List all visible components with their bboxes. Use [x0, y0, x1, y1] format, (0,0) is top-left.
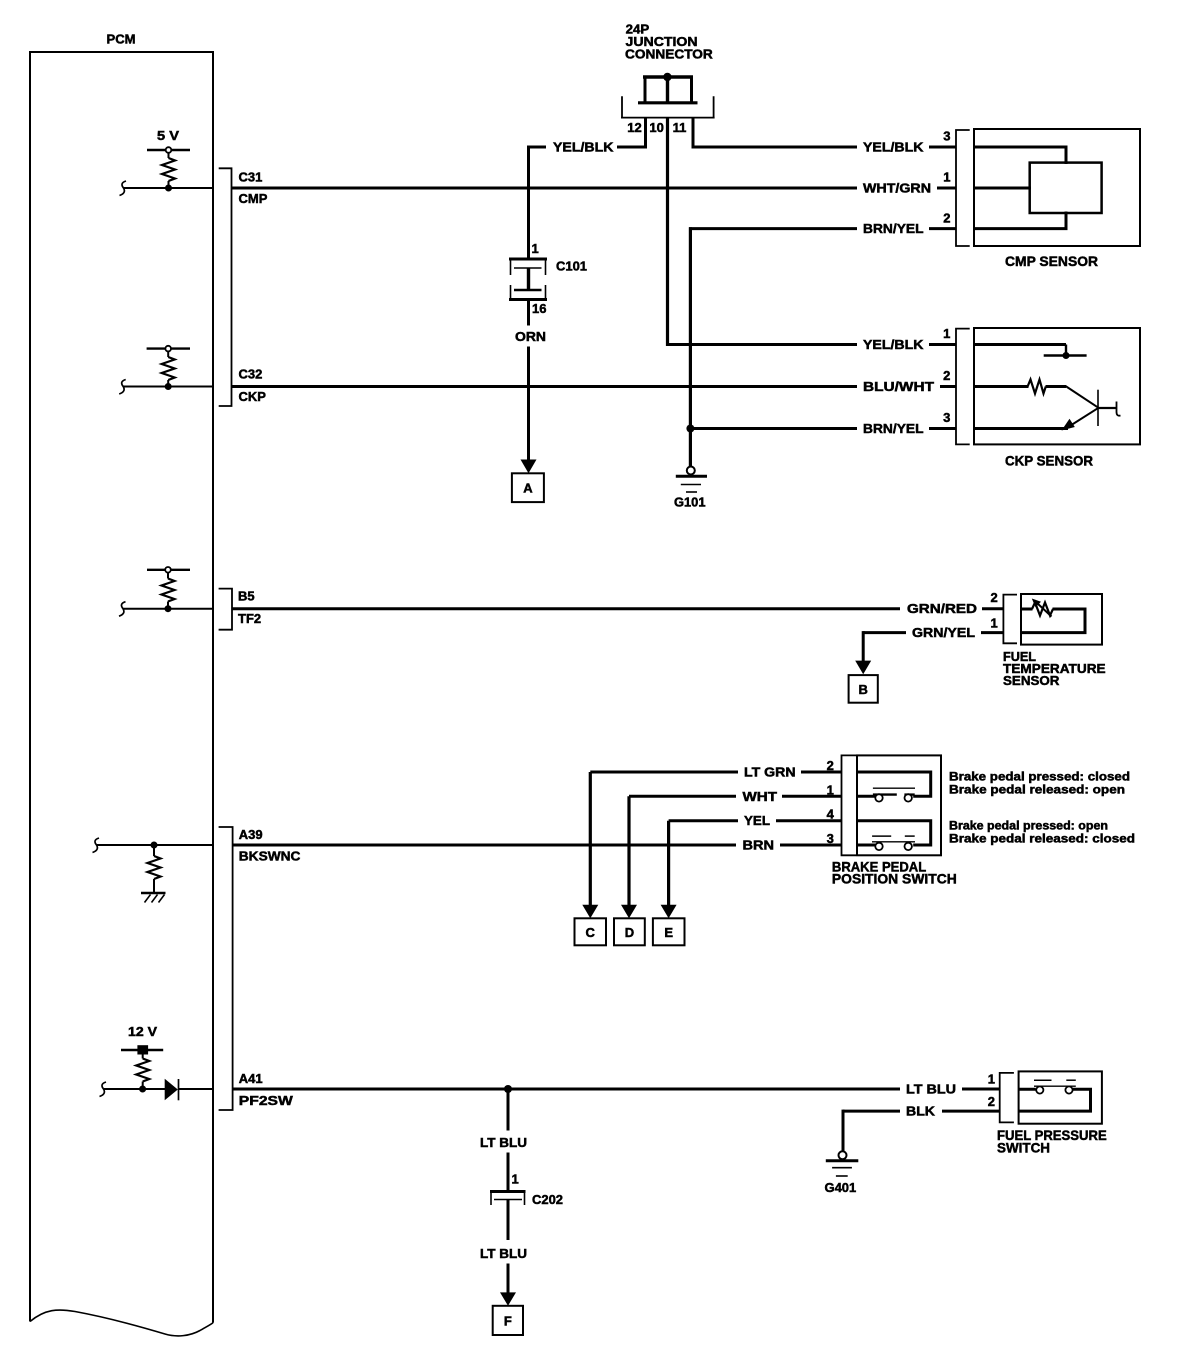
wire YEL/BLK label to down corner	[529, 146, 546, 149]
svg-text:3: 3	[827, 831, 834, 846]
svg-text:2: 2	[988, 1094, 995, 1109]
fuel pressure inner trace pin 1	[1019, 1088, 1036, 1091]
wire vertical to C arrow	[589, 772, 592, 905]
CMP sensor box	[974, 129, 1140, 246]
resistor (C31 pull-up)	[162, 158, 175, 181]
wire A39 to brake pin 3 (BRN row)	[233, 844, 736, 847]
svg-text:1: 1	[990, 616, 997, 631]
wire YEL row (brake pin 4)	[669, 819, 738, 822]
brake switch 2 wiring	[857, 821, 931, 845]
arrowhead to D	[621, 905, 637, 919]
destination box F	[493, 1306, 523, 1335]
chassis ground A39	[141, 893, 166, 903]
label FUEL TEMPERATURE SENSOR	[1003, 649, 1106, 688]
label BRAKE PEDAL POSITION SWITCH	[832, 858, 957, 886]
svg-text:G401: G401	[825, 1180, 857, 1195]
CMP inner trace pin 3	[974, 147, 1066, 164]
fuel temp inner loop	[1021, 609, 1085, 633]
svg-text:WHT: WHT	[743, 789, 778, 804]
wire C32 to CKP pin 2 (BLU/WHT row)	[232, 385, 858, 388]
wire stub to brake pin 2	[801, 771, 842, 774]
svg-text:YEL: YEL	[744, 813, 770, 828]
wire stub to fuel pressure pin 1	[962, 1088, 1000, 1091]
svg-text:LT GRN: LT GRN	[744, 765, 796, 780]
wire C31 to CMP pin 1 (WHT/GRN row)	[232, 187, 858, 190]
annotation switch 2	[949, 819, 1135, 846]
svg-text:CMP: CMP	[239, 191, 268, 206]
label FUEL PRESSURE SWITCH	[997, 1127, 1107, 1156]
svg-text:CKP SENSOR: CKP SENSOR	[1005, 453, 1093, 469]
destination box C	[575, 918, 607, 945]
svg-text:1: 1	[512, 1172, 519, 1187]
svg-text:D: D	[625, 925, 634, 940]
wire dot to resistor	[153, 845, 155, 856]
svg-text:YEL/BLK: YEL/BLK	[863, 140, 924, 155]
svg-text:2: 2	[943, 368, 950, 383]
brake connector bracket	[842, 755, 857, 855]
svg-text:C31: C31	[239, 170, 263, 185]
diode D (A41)	[165, 1079, 179, 1101]
wire stub to CMP pin 1	[937, 187, 956, 190]
svg-text:PCM: PCM	[107, 32, 136, 47]
wire BRN/YEL row to CKP pin 3	[690, 427, 857, 430]
resistor (A39 pull-down)	[148, 856, 161, 879]
wire pin 12 to YEL/BLK label	[617, 146, 647, 149]
svg-text:POSITION SWITCH: POSITION SWITCH	[832, 871, 957, 887]
24P junction connector symbol	[638, 73, 698, 103]
wire stub to CKP pin 1	[929, 343, 956, 346]
junction dot on C31 wire	[165, 185, 172, 192]
svg-text:5 V: 5 V	[157, 128, 179, 143]
wire resistor to C32 wire	[167, 380, 169, 387]
CMP inner trace pin 1	[974, 187, 1031, 190]
wire C31 inside PCM	[123, 187, 213, 189]
svg-text:CMP SENSOR: CMP SENSOR	[1005, 253, 1098, 269]
wire stub to brake pin 3	[780, 844, 842, 847]
in-line connector C101	[509, 259, 547, 300]
wire vertical to D arrow	[627, 796, 630, 905]
svg-text:PF2SW: PF2SW	[239, 1093, 294, 1108]
wire break squiggle A41	[100, 1082, 107, 1097]
wire stub to fuel temp pin 2	[982, 607, 1003, 610]
junction dot on C32 wire	[165, 383, 172, 390]
svg-text:E: E	[664, 925, 673, 940]
wire junction to ground G101	[689, 429, 692, 467]
svg-text:TF2: TF2	[238, 611, 261, 626]
connector bracket C31/C32	[219, 168, 232, 406]
svg-text:2: 2	[990, 590, 997, 605]
wire break squiggle A39	[93, 838, 100, 853]
svg-text:1: 1	[988, 1072, 995, 1087]
svg-text:B5: B5	[238, 589, 255, 604]
PCM box	[30, 52, 213, 1336]
wire WHT row (brake pin 1)	[629, 795, 736, 798]
5V supply symbol at C32	[147, 346, 190, 357]
CMP connector bracket	[956, 130, 970, 246]
arrowhead to F	[500, 1292, 516, 1305]
ground G101	[676, 467, 707, 493]
arrowhead to E	[661, 905, 677, 919]
wire diode to PCM edge	[179, 1088, 214, 1090]
fuel temperature sensor box	[1021, 594, 1102, 645]
wire vertical to E arrow	[667, 821, 670, 906]
svg-text:1: 1	[532, 241, 539, 256]
wire A41 to fuel pressure pin 1 (LT BLU row)	[233, 1088, 900, 1091]
svg-text:2: 2	[943, 211, 950, 226]
resistor (A41 pull-up)	[136, 1059, 149, 1082]
wire junction to LT BLU label	[507, 1089, 510, 1131]
wire corner BLK to G401	[842, 1110, 845, 1151]
wire resistor to ground	[153, 879, 155, 892]
CKP connector bracket	[956, 329, 970, 445]
svg-text:GRN/RED: GRN/RED	[907, 601, 977, 616]
wire pin10 corner to CKP pin 1 (YEL/BLK row)	[666, 343, 857, 346]
wire label to C202	[507, 1153, 510, 1192]
junction dot on B5 wire	[165, 605, 172, 612]
svg-text:BLK: BLK	[906, 1104, 936, 1119]
wire break squiggle B5	[119, 602, 126, 617]
svg-text:Brake pedal released: open: Brake pedal released: open	[949, 782, 1125, 796]
junction dot on A41 wire	[139, 1086, 146, 1093]
junction dot C202 node	[504, 1085, 512, 1093]
CKP sensor box	[974, 328, 1140, 444]
CKP wire resistor to core	[1046, 385, 1067, 388]
svg-text:LT BLU: LT BLU	[906, 1082, 956, 1097]
svg-text:C202: C202	[532, 1192, 563, 1207]
CKP inner trace pin 2	[974, 385, 1029, 388]
wire stub to brake pin 4	[776, 819, 842, 822]
wire BRN/YEL row to CMP pin 2	[689, 227, 857, 230]
wire corner GRN/YEL to B arrow	[862, 631, 865, 661]
wire resistor to B5 wire	[167, 602, 169, 609]
fuel pressure connector bracket	[1000, 1073, 1014, 1123]
svg-text:YEL/BLK: YEL/BLK	[553, 140, 614, 155]
CMP inner trace pin 2	[974, 212, 1066, 229]
svg-text:16: 16	[532, 301, 546, 316]
svg-text:SWITCH: SWITCH	[997, 1140, 1050, 1156]
brake pedal position switch box	[857, 755, 941, 855]
wire B5 to fuel temp pin 2 (GRN/RED row)	[232, 607, 900, 610]
svg-text:1: 1	[943, 170, 950, 185]
5V supply symbol at B5	[147, 567, 190, 579]
wire resistor to C31 wire	[168, 181, 170, 188]
svg-text:F: F	[504, 1314, 512, 1329]
svg-text:G101: G101	[674, 495, 706, 510]
svg-text:B: B	[859, 682, 868, 697]
fuel temp inner trace pin 2	[1021, 608, 1033, 611]
wire stub to CKP pin 2	[940, 385, 956, 388]
wire GRN/YEL row	[863, 631, 906, 634]
CKP core bar	[1097, 390, 1099, 426]
fuel pressure switch box	[1019, 1071, 1102, 1123]
wire A39 inside PCM	[97, 844, 213, 846]
svg-text:BKSWNC: BKSWNC	[239, 849, 301, 864]
wire stub to CMP pin 3	[929, 146, 956, 149]
arrowhead to A	[521, 460, 537, 474]
wire C202 to LT BLU label	[507, 1200, 510, 1241]
24P connector bracket	[621, 96, 715, 117]
destination box D	[614, 918, 645, 945]
svg-text:C101: C101	[556, 259, 587, 274]
destination box E	[653, 918, 685, 945]
wire break squiggle C32	[119, 380, 126, 395]
svg-text:10: 10	[649, 120, 663, 135]
wire pin 11 to CMP pin 3 (YEL/BLK row)	[692, 146, 858, 149]
wire A41 inside PCM left of diode	[104, 1088, 165, 1090]
wire resistor to A41 wire	[142, 1082, 144, 1090]
svg-text:LT BLU: LT BLU	[480, 1246, 527, 1261]
junction dot G101 node	[686, 425, 694, 433]
wire break squiggle C31	[120, 181, 127, 196]
wire to F arrow	[507, 1264, 510, 1294]
svg-text:12 V: 12 V	[128, 1024, 157, 1039]
svg-text:ORN: ORN	[515, 329, 546, 344]
wire pin 11 drop	[692, 118, 695, 149]
svg-text:C: C	[586, 925, 596, 940]
arrowhead to B	[855, 661, 871, 675]
svg-text:C32: C32	[239, 367, 263, 382]
svg-text:1: 1	[943, 326, 950, 341]
svg-text:BRN/YEL: BRN/YEL	[863, 421, 924, 436]
svg-text:11: 11	[673, 120, 687, 135]
fuel temp connector bracket	[1003, 595, 1017, 644]
resistor (B5 pull-up)	[162, 579, 175, 602]
svg-text:A41: A41	[239, 1071, 263, 1086]
svg-text:YEL/BLK: YEL/BLK	[863, 337, 924, 352]
wire stub to CMP pin 2	[929, 227, 956, 230]
annotation switch 1	[949, 770, 1130, 797]
wire C101 to ORN label	[527, 301, 530, 326]
CKP inner trace pin 3	[974, 427, 1068, 430]
CKP inner trace pin 1 pickup	[974, 345, 1087, 360]
CKP diagonal pin2 to core	[1066, 386, 1099, 408]
svg-text:CONNECTOR: CONNECTOR	[625, 47, 713, 62]
svg-text:12: 12	[627, 120, 641, 135]
svg-text:A39: A39	[239, 827, 263, 842]
in-line connector C202	[490, 1192, 526, 1206]
wire pin 10 drop (to CKP YEL/BLK row)	[666, 118, 669, 346]
arrowhead to C	[582, 905, 598, 919]
CKP output tail	[1098, 402, 1121, 416]
junction dot A39 resistor	[151, 842, 158, 849]
fuel pressure inner loop	[1019, 1089, 1091, 1111]
svg-text:CKP: CKP	[239, 389, 267, 404]
wire stub to brake pin 1	[782, 795, 842, 798]
ground G401	[826, 1151, 859, 1176]
12V supply symbol at A41	[121, 1045, 163, 1058]
svg-text:BLU/WHT: BLU/WHT	[863, 379, 934, 394]
svg-text:BRN: BRN	[743, 838, 775, 853]
CMP inner element box	[1030, 163, 1102, 213]
wire ORN label to arrow A	[527, 347, 530, 461]
thermistor arrow	[1032, 599, 1052, 617]
destination box A	[512, 473, 544, 502]
wire BLK row	[843, 1110, 900, 1113]
wire vertical YEL/BLK to C101	[527, 146, 530, 259]
svg-text:A: A	[523, 481, 533, 496]
svg-text:2: 2	[827, 758, 834, 773]
wire C32 inside PCM	[123, 386, 213, 388]
wire stub to CKP pin 3	[929, 427, 956, 430]
5V supply symbol at C31	[147, 147, 190, 158]
connector bracket A39/A41	[219, 827, 233, 1110]
label 24P JUNCTION CONNECTOR	[625, 22, 713, 62]
svg-text:3: 3	[943, 410, 950, 425]
brake switch 1 contacts (closed)	[873, 788, 915, 801]
svg-text:LT BLU: LT BLU	[480, 1135, 527, 1150]
fuel pressure switch contacts (open)	[1034, 1080, 1076, 1093]
wire LT GRN row (brake pin 2)	[590, 771, 738, 774]
brake switch 1 wiring	[857, 772, 931, 796]
svg-text:4: 4	[827, 807, 835, 822]
brake switch 2 contacts (open)	[872, 836, 915, 850]
svg-text:1: 1	[827, 782, 834, 797]
CKP diagonal pin3 to core with arrowhead	[1062, 408, 1099, 431]
resistor (C32 pull-up)	[162, 357, 175, 380]
wire corner BRN/YEL (CMP pin 2) down to G101	[689, 227, 692, 429]
svg-text:WHT/GRN: WHT/GRN	[863, 181, 931, 196]
wire stub to fuel temp pin 1	[981, 631, 1003, 634]
svg-text:Brake pedal released: closed: Brake pedal released: closed	[949, 831, 1135, 845]
thermistor zigzag	[1032, 603, 1053, 616]
svg-text:SENSOR: SENSOR	[1003, 673, 1060, 688]
destination box B	[849, 675, 878, 703]
svg-text:3: 3	[943, 129, 950, 144]
wire B5 inside PCM	[123, 608, 213, 610]
svg-text:GRN/YEL: GRN/YEL	[912, 625, 975, 640]
CKP coil resistor	[1028, 380, 1046, 394]
wire stub to fuel pressure pin 2	[942, 1110, 1000, 1113]
connector bracket B5	[219, 589, 232, 630]
svg-text:BRN/YEL: BRN/YEL	[863, 221, 924, 236]
wire pin 12 drop	[644, 118, 647, 149]
